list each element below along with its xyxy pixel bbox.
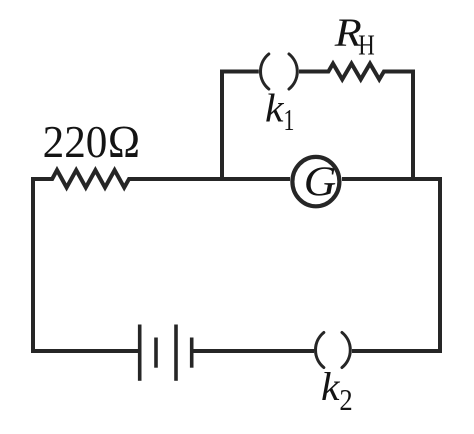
svg-text:2: 2 [339, 382, 352, 417]
svg-text:H: H [358, 31, 375, 62]
wire middle left stub (corner to R1) [31, 177, 53, 181]
wire k1 to RH [299, 70, 329, 74]
switch k2 right contact arc [342, 333, 350, 368]
galvanometer U1 circle [292, 157, 339, 206]
wire bottom left segment (corner to battery) [31, 349, 138, 353]
resistor R1 220 ohm zigzag [51, 170, 131, 187]
wire right vertical [438, 177, 442, 353]
wire bottom right segment (k2 to corner) [352, 349, 442, 353]
switch k1 right contact arc [289, 54, 297, 89]
switch k1 left contact arc [261, 54, 269, 89]
svg-text:1: 1 [284, 102, 295, 137]
wire bottom middle segment (battery to k2) [192, 349, 314, 353]
svg-text:220Ω: 220Ω [43, 116, 141, 167]
wire sub-loop top stub to k1 [220, 70, 259, 74]
wire middle segment (R1 to galvanometer, node A at x222) [129, 177, 290, 181]
battery B1 short plate 2 [190, 338, 194, 368]
battery B1 long plate 2 [174, 325, 178, 381]
resistor RH zigzag [327, 64, 385, 80]
wire left vertical (node A to battery loop) [33, 177, 36, 351]
wire middle right segment (galvanometer to node B) [342, 177, 442, 181]
switch k2 left contact arc [316, 333, 324, 368]
svg-text:G: G [304, 160, 337, 206]
svg-text:k: k [321, 364, 341, 409]
wire sub-loop left vertical (node A up) [220, 71, 224, 181]
battery B1 short plate 1 [154, 338, 158, 368]
battery B1 long plate 1 [138, 325, 142, 381]
wire RH to sub-loop right vertical (down to node B) [384, 72, 413, 182]
svg-text:k: k [265, 85, 285, 130]
